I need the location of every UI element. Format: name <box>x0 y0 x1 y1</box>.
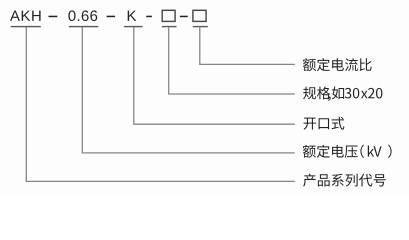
label rated current ratio 额定电流比 <box>303 58 372 71</box>
model code text AKH <box>10 11 41 21</box>
leader line from AKH down to row 5 (产品系列代号) <box>26 27 295 181</box>
placeholder box 1 <box>162 10 175 21</box>
leader line from 0.66 down to row 4 (额定电压) <box>82 27 294 153</box>
underline under box 1 <box>162 26 177 27</box>
label product series code 产品系列代号 <box>303 174 386 187</box>
model code text 0.66 <box>68 10 97 21</box>
label specification 规格,如30x20 <box>303 87 382 101</box>
leader line from box 2 down to row 1 (额定电流比) <box>200 27 295 64</box>
label rated voltage 额定电压（kV） <box>303 145 392 158</box>
leader line from box 1 down to row 2 (规格) <box>169 27 295 94</box>
model code text K <box>128 11 137 21</box>
underline under K <box>124 26 143 27</box>
dash 4 <box>180 16 188 18</box>
label open type 开口式 <box>304 117 345 130</box>
dash 1 <box>49 16 58 18</box>
leader line from K down to row 3 (开口式) <box>134 27 295 124</box>
underline under box 2 <box>193 26 208 27</box>
dash 3 <box>146 16 152 18</box>
dash 2 <box>107 16 116 18</box>
underline under AKH <box>11 26 41 27</box>
placeholder box 2 <box>193 10 206 21</box>
underline under 0.66 <box>69 26 98 27</box>
